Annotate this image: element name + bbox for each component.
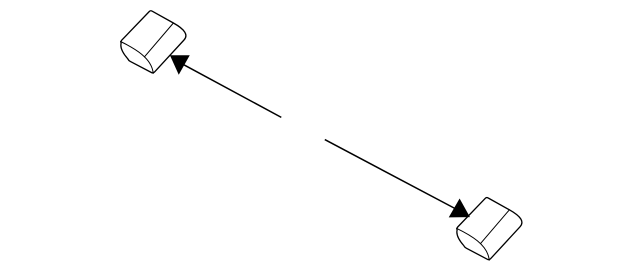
pad 1 front rounded edge — [121, 42, 154, 74]
leader arrow 2 shaft — [325, 140, 455, 209]
part block 1 (top-left rubber pad) — [121, 11, 186, 74]
pad 1 outline — [121, 11, 186, 73]
leader arrow 1 head — [171, 56, 189, 74]
part block 2 (bottom-right rubber pad) — [457, 198, 522, 261]
leader arrow 1 shaft — [184, 65, 281, 118]
pad 2 top ridge line — [481, 210, 510, 244]
leader arrow 2 head — [450, 200, 470, 217]
pad 2 outline — [457, 198, 522, 260]
pad 1 top ridge line — [145, 23, 174, 57]
pad 2 front rounded edge — [457, 228, 490, 260]
